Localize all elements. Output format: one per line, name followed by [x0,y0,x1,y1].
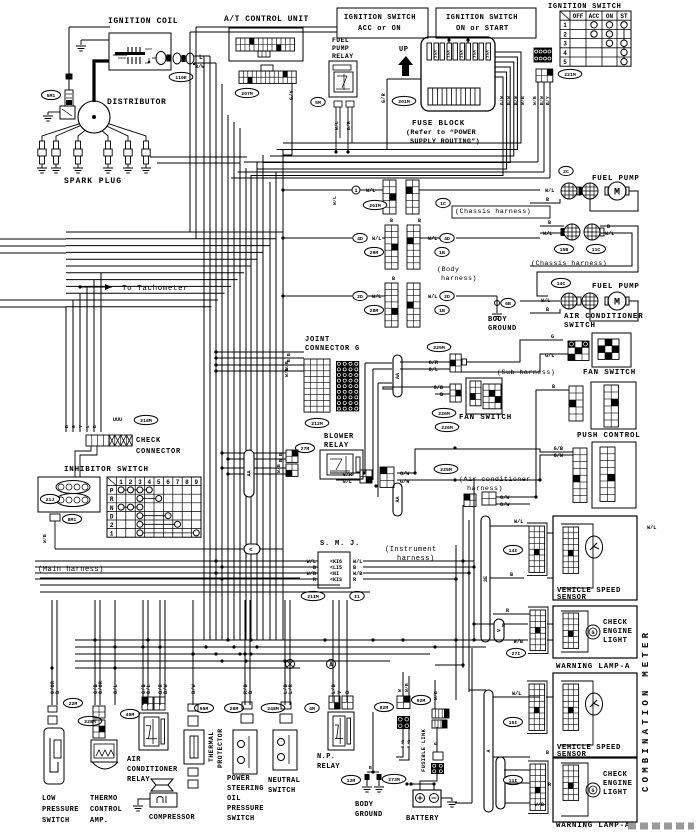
svg-text:G/OR: G/OR [98,681,104,694]
svg-text:W/L: W/L [372,236,381,242]
svg-text:M: M [614,188,620,199]
svg-text:G: G [591,788,594,794]
svg-text:B: B [548,220,551,226]
svg-text:1: 1 [563,22,567,29]
svg-text:B/W: B/W [191,684,197,694]
svg-text:26IM: 26IM [369,203,381,209]
svg-text:SWITCH: SWITCH [227,815,255,823]
svg-text:27M: 27M [301,446,310,452]
svg-text:W: W [397,689,403,692]
svg-text:SPARK PLUG: SPARK PLUG [64,177,122,186]
svg-text:G/R: G/R [381,93,387,103]
svg-text:B: B [286,353,292,356]
svg-text:15I: 15I [509,720,518,726]
svg-text:W/L: W/L [372,294,381,300]
svg-text:W/B: W/B [433,691,439,700]
svg-text:ON: ON [606,13,614,20]
svg-text:IGNITION COIL: IGNITION COIL [108,17,178,26]
svg-text:15A: 15A [474,50,478,58]
svg-text:1B: 1B [439,250,445,256]
svg-text:12M: 12M [347,778,356,784]
svg-text:273M: 273M [388,777,400,783]
svg-text:B: B [92,425,98,428]
svg-text:FUSE BLOCK: FUSE BLOCK [412,120,465,128]
svg-text:B: B [392,276,395,282]
svg-text:To Tachometer: To Tachometer [122,285,188,293]
svg-text:AIR CONDITIONER: AIR CONDITIONER [564,313,644,321]
svg-text:V: V [497,629,503,632]
svg-text:harness): harness) [397,555,435,563]
svg-text:I1: I1 [354,594,360,600]
svg-text:LIGHT: LIGHT [603,789,628,797]
svg-text:BODY: BODY [488,316,507,324]
svg-text:15A: 15A [461,50,465,58]
svg-text:G/W: G/W [499,96,505,105]
svg-text:W/L: W/L [512,691,521,697]
svg-text:B: B [345,691,351,694]
svg-text:221M: 221M [564,72,576,78]
svg-text:B: B [440,392,443,398]
svg-text:G: G [433,742,439,745]
svg-text:8M1: 8M1 [68,517,77,523]
svg-text:RELAY: RELAY [317,763,340,771]
svg-text:21IM: 21IM [307,594,319,600]
svg-text:POWER: POWER [227,775,250,783]
svg-text:(Refer to “POWER: (Refer to “POWER [406,129,477,137]
svg-text:FUSIBLE LINK: FUSIBLE LINK [420,728,427,772]
svg-text:W/B: W/B [520,96,526,105]
svg-text:L: L [85,425,91,428]
svg-text:B: B [369,765,372,771]
svg-text:CONNECTOR: CONNECTOR [136,448,181,456]
svg-text:R: R [110,496,114,503]
svg-text:15B: 15B [560,247,569,253]
svg-text:AIR: AIR [127,756,141,764]
svg-text:CONDITIONER: CONDITIONER [127,766,178,774]
svg-text:G/L: G/L [146,684,152,694]
svg-text:ACC: ACC [589,13,600,20]
svg-text:5: 5 [563,59,567,66]
svg-text:BLOWER: BLOWER [324,433,354,441]
svg-text:G/R: G/R [429,360,439,366]
svg-text:SUPPLY ROUTING”): SUPPLY ROUTING”) [410,138,480,146]
svg-text:5: 5 [157,479,161,486]
svg-text:PUSH CONTROL: PUSH CONTROL [577,432,641,440]
svg-text:OIL: OIL [227,795,241,803]
svg-text:ACC or ON: ACC or ON [358,25,401,33]
svg-text:M: M [614,298,620,309]
svg-text:29M: 29M [370,250,379,256]
svg-text:(Chassis harness): (Chassis harness) [455,208,531,216]
svg-text:27I: 27I [512,651,521,657]
svg-text:IGNITION SWITCH: IGNITION SWITCH [344,14,416,22]
svg-text:DISTRIBUTOR: DISTRIBUTOR [107,98,166,107]
svg-text:A/T CONTROL UNIT: A/T CONTROL UNIT [224,15,309,24]
svg-text:SENSOR: SENSOR [557,594,587,602]
svg-text:6B: 6B [505,301,511,307]
svg-text:1: 1 [110,531,114,538]
svg-text:SWITCH: SWITCH [564,322,596,330]
svg-text:G/W: G/W [500,495,510,501]
svg-text:3: 3 [563,41,567,48]
svg-text:226M: 226M [438,411,450,417]
svg-text:THERMO: THERMO [90,795,118,803]
svg-text:G/B: G/B [554,446,563,452]
svg-text:G/W: G/W [500,502,510,508]
svg-text:1C: 1C [440,201,446,207]
svg-text:PROTECTOR: PROTECTOR [217,728,224,768]
svg-text:6: 6 [166,479,170,486]
svg-text:BATTERY: BATTERY [406,815,439,823]
svg-text:40M: 40M [126,712,135,718]
svg-text:THERMAL: THERMAL [208,731,215,762]
svg-text:2: 2 [563,31,567,38]
svg-text:B: B [546,197,549,203]
svg-text:5M1: 5M1 [47,93,56,99]
svg-text:L/R: L/R [288,684,294,694]
svg-text:B: B [248,691,254,694]
svg-text:B/W: B/W [163,684,169,694]
svg-text:CONNECTOR G: CONNECTOR G [305,345,360,353]
svg-text:(Body: (Body [437,266,459,274]
svg-text:4D: 4D [357,236,363,242]
svg-text:2: 2 [110,522,114,529]
svg-text:225M: 225M [440,467,452,473]
svg-text:14C: 14C [557,281,566,287]
svg-text:BODY: BODY [355,801,374,809]
svg-text:W/L: W/L [545,188,554,194]
svg-text:1: 1 [119,479,123,486]
svg-text:W/L: W/L [428,294,437,300]
svg-text:GROUND: GROUND [355,811,383,819]
svg-text:4: 4 [147,479,151,486]
svg-text:ENGINE: ENGINE [603,780,633,788]
svg-text:<: < [249,547,253,554]
svg-text:UUU: UUU [113,417,122,423]
svg-text:G/B: G/B [434,385,443,391]
svg-text:LIGHT: LIGHT [603,637,628,645]
svg-text:G: G [551,334,554,340]
svg-text:B/W: B/W [513,96,519,105]
svg-text:G/L: G/L [113,684,119,694]
svg-text:B/R: B/R [346,121,352,130]
svg-text:AMP.: AMP. [90,817,108,825]
svg-text:A: A [329,662,333,669]
svg-text:<KIS: <KIS [330,577,342,583]
svg-text:SWITCH: SWITCH [268,787,296,795]
svg-text:COMPRESSOR: COMPRESSOR [149,814,195,822]
svg-text:26M: 26M [230,706,239,712]
svg-text:S. M. J.: S. M. J. [320,540,360,548]
svg-text:ENGINE: ENGINE [603,628,633,636]
svg-text:W/B: W/B [535,802,544,808]
svg-text:B: B [510,572,513,578]
svg-text:55M: 55M [200,706,209,712]
svg-text:3: 3 [138,479,142,486]
svg-text:AA: AA [395,496,401,502]
svg-text:W/L: W/L [366,188,375,194]
svg-text:8: 8 [185,479,189,486]
svg-text:W/B: W/B [284,368,290,377]
svg-text:110E: 110E [175,75,187,81]
svg-text:CONTROL: CONTROL [90,806,122,814]
svg-text:B: B [390,218,393,224]
svg-text:92M: 92M [417,698,426,704]
svg-text:IGNITION SWITCH: IGNITION SWITCH [548,3,622,11]
svg-text:B: B [552,384,555,390]
svg-text:218M: 218M [140,418,152,424]
svg-text:OFF: OFF [573,13,584,20]
svg-text:82M: 82M [380,705,389,711]
svg-text:ST: ST [620,13,628,20]
svg-text:W/L: W/L [514,519,523,525]
svg-text:4: 4 [563,50,567,57]
svg-text:11C: 11C [592,247,601,253]
svg-text:2D: 2D [444,294,450,300]
svg-text:PRESSURE: PRESSURE [42,806,79,814]
svg-text:RELAY: RELAY [332,53,354,60]
svg-text:D: D [110,513,114,520]
svg-text:SWITCH: SWITCH [42,817,70,825]
svg-text:R: R [506,608,509,614]
svg-text:4M: 4M [309,706,315,712]
svg-text:Y: Y [78,425,84,428]
svg-text:WARNING LAMP-A: WARNING LAMP-A [556,822,630,830]
svg-text:B: B [55,691,61,694]
svg-text:2C: 2C [563,169,569,175]
svg-text:B: B [64,425,70,428]
svg-text:1: 1 [354,188,357,194]
svg-text:ON or START: ON or START [456,25,509,33]
svg-text:RELAY: RELAY [324,442,349,450]
svg-text:4D: 4D [444,236,450,242]
svg-text:W/L: W/L [332,196,338,205]
svg-text:B: B [418,218,421,224]
svg-text:225M: 225M [433,345,445,351]
svg-text:2: 2 [129,479,133,486]
svg-text:207M: 207M [241,91,253,97]
svg-text:21J: 21J [46,497,55,503]
svg-text:B: B [546,750,549,756]
svg-text:CHECK: CHECK [603,619,628,627]
svg-text:G: G [71,425,77,428]
svg-text:7: 7 [176,479,180,486]
svg-text:G: G [591,630,594,636]
svg-text:3E: 3E [483,576,489,582]
svg-text:FUEL PUMP: FUEL PUMP [592,283,640,291]
svg-text:212M: 212M [311,421,323,427]
svg-text:L: L [199,54,203,61]
svg-text:LOW: LOW [42,795,56,803]
svg-text:(Instrument: (Instrument [385,546,437,554]
svg-text:B/W: B/W [506,96,512,105]
svg-text:IGNITION SWITCH: IGNITION SWITCH [446,14,518,22]
svg-text:CHECK: CHECK [603,771,628,779]
svg-text:(Chassis harness): (Chassis harness) [531,260,607,268]
svg-text:PUMP: PUMP [332,45,349,52]
svg-text:G/W: G/W [400,471,410,477]
svg-text:AA: AA [247,470,253,476]
svg-text:9: 9 [194,479,198,486]
svg-text:B: B [607,224,610,230]
svg-text:RELAY: RELAY [127,776,150,784]
svg-text:GROUND: GROUND [488,325,517,333]
svg-text:INHIBITOR SWITCH: INHIBITOR SWITCH [64,466,149,474]
svg-text:1B: 1B [439,308,445,314]
svg-text:harness): harness) [441,275,477,283]
svg-text:NEUTRAL: NEUTRAL [268,777,300,785]
svg-text:W/L: W/L [428,236,437,242]
svg-text:A: A [486,749,492,752]
svg-text:R: R [548,782,551,788]
svg-text:14I: 14I [509,548,518,554]
svg-text:WARNING LAMP-A: WARNING LAMP-A [556,663,630,671]
svg-text:UP: UP [399,46,408,54]
svg-text:W/L: W/L [605,231,614,237]
svg-text:W/B: W/B [532,96,538,105]
svg-text:201M: 201M [398,99,410,105]
svg-text:W/L: W/L [647,525,656,531]
svg-text:AA: AA [395,373,401,379]
svg-text:2D: 2D [357,294,363,300]
svg-text:22M: 22M [69,701,78,707]
svg-text:P: P [110,488,114,495]
svg-text:Y: Y [337,691,343,694]
svg-text:W/L: W/L [334,121,340,130]
svg-text:N: N [110,505,114,512]
svg-text:248M: 248M [267,706,279,712]
svg-text:5M: 5M [315,100,321,106]
svg-text:COMBINATION METER: COMBINATION METER [641,629,651,792]
svg-text:PRESSURE: PRESSURE [227,805,264,813]
svg-text:FAN SWITCH: FAN SWITCH [583,369,636,377]
svg-text:JOINT: JOINT [305,336,330,344]
svg-text:28M: 28M [370,308,379,314]
svg-text:W/L: W/L [543,231,552,237]
svg-text:FAN SWITCH: FAN SWITCH [459,414,512,422]
svg-text:226M: 226M [441,425,453,431]
svg-text:N.P.: N.P. [317,753,335,761]
svg-text:15A: 15A [487,50,491,58]
svg-text:STEERING: STEERING [227,785,264,793]
svg-text:15A: 15A [435,50,439,58]
svg-text:B: B [546,307,549,313]
svg-text:CHECK: CHECK [136,437,161,445]
svg-text:W/B: W/B [42,534,48,543]
svg-text:G/W: G/W [554,453,564,459]
svg-text:(Sub-harness): (Sub-harness) [497,369,555,377]
svg-text:G/L: G/L [429,367,438,373]
svg-text:15A: 15A [448,50,452,58]
